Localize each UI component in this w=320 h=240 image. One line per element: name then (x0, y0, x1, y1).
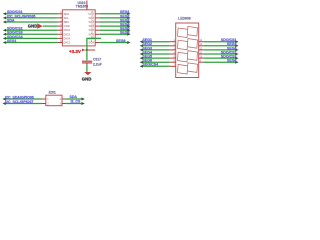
svg-text:GND: GND (64, 24, 70, 28)
svg-text:GND: GND (28, 23, 38, 28)
node arrow led right 2 (235, 44, 238, 47)
node arrow led left 1 (140, 40, 143, 43)
pin 3 stub (58, 21, 63, 23)
J201 stub right 1 (62, 98, 66, 100)
wire I2C_SCL/GPIO07 (4, 103, 42, 105)
svg-text:J201: J201 (48, 90, 56, 94)
node arrow right 1 (127, 12, 130, 15)
node arrow j right 1 (81, 98, 84, 101)
node arrow led left 6 (140, 61, 143, 64)
pin 5 stub (58, 29, 63, 31)
pin 4 stub (58, 25, 63, 27)
node arrow led left 2 (140, 44, 143, 47)
pin 9 stub (95, 42, 100, 44)
svg-text:2.2uF: 2.2uF (93, 62, 102, 66)
svg-text:3: 3 (59, 103, 61, 106)
wire net SEG3 (100, 21, 129, 23)
J201 stub right 2 (62, 103, 66, 105)
svg-text:SG6: SG6 (88, 32, 94, 36)
pin 14 stub (95, 21, 100, 23)
svg-text:SCL: SCL (64, 16, 70, 20)
svg-text:GND: GND (82, 76, 92, 81)
node arrow left 1 (3, 12, 6, 15)
svg-text:I2C_SCL/GPIO07: I2C_SCL/GPIO07 (5, 100, 33, 104)
svg-text:2: 2 (47, 103, 49, 106)
node arrow left 8 (3, 41, 6, 44)
wire I2C_S out (66, 103, 84, 105)
J201 stub left 2 (42, 103, 46, 105)
node arrow right 6 (127, 33, 130, 36)
digit 3 (178, 51, 198, 62)
svg-text:DIG1: DIG1 (64, 41, 71, 45)
wire net SEG2 (100, 17, 129, 19)
wire net SEG1 right (100, 13, 129, 15)
wire GND to pin4 (43, 25, 58, 27)
junction dot (86, 49, 88, 51)
node arrow right 8 (127, 41, 130, 44)
wire SEG6 to LED (141, 61, 170, 63)
wire SEG8 from LED (204, 61, 237, 63)
node arrow j left 2 (2, 102, 5, 105)
wire SEG2 to LED (141, 45, 170, 47)
ground arrow (37, 23, 43, 28)
wire SDO/CS1 from LED (204, 41, 237, 43)
node arrow left 5 (3, 29, 6, 32)
IC U310 body (62, 10, 95, 46)
svg-text:TM1650: TM1650 (76, 5, 88, 9)
svg-text:VCC: VCC (88, 12, 94, 16)
wire I2C_SDA/GPIO06 (4, 98, 42, 100)
wire net SEG1 left (5, 42, 58, 44)
wire net SDO/CS3 (5, 33, 58, 35)
wire net SDO/CS1 (5, 13, 58, 15)
wire SEG3 to LED (141, 49, 170, 51)
node arrow led right 6 (235, 61, 238, 64)
wire SDO/CS4 to LED (141, 65, 170, 67)
svg-text:SG2: SG2 (88, 16, 94, 20)
svg-text:SEG8: SEG8 (116, 39, 125, 43)
wire SDA out (66, 98, 84, 100)
pin 11 stub (95, 33, 100, 35)
svg-text:DIG3: DIG3 (64, 32, 71, 36)
wire to capacitor (86, 50, 88, 60)
svg-text:C317: C317 (93, 58, 101, 62)
+3.3V arrow (82, 49, 85, 52)
pin numbers left (60, 11, 62, 43)
svg-text:SG8: SG8 (88, 41, 94, 45)
node arrow left 7 (3, 37, 6, 40)
wire SEG5 to LED (141, 57, 170, 59)
node arrow right 2 (127, 16, 130, 19)
svg-text:SEG1: SEG1 (7, 39, 16, 43)
node arrow left 6 (3, 33, 6, 36)
LED display LED808 body (176, 23, 199, 78)
LED pin stubs left (170, 42, 176, 67)
svg-text:I2C_SDA/GPIO06: I2C_SDA/GPIO06 (5, 95, 34, 99)
LED pin stubs right (199, 42, 204, 63)
wire net SEG6 (100, 33, 129, 35)
pin names U310 (64, 12, 95, 45)
wire net SEG5 (100, 29, 129, 31)
wire SDO/CS2 from LED (204, 53, 237, 55)
svg-text:DIG4: DIG4 (64, 36, 71, 40)
LED pin numbers left (174, 39, 176, 67)
pin 1 stub (58, 13, 63, 15)
wire +3.3V to pin10 (87, 38, 101, 50)
wire SDO/CS3 from LED (204, 57, 237, 59)
node arrow led left 3 (140, 48, 143, 51)
svg-text:SG5: SG5 (88, 28, 94, 32)
wire SEG6 from LED (204, 49, 237, 51)
svg-text:DIG2: DIG2 (64, 28, 71, 32)
wire SEG4 to LED (141, 53, 170, 55)
pin 15 stub (95, 17, 100, 19)
svg-text:SEG8: SEG8 (227, 59, 236, 63)
svg-text:SG3: SG3 (88, 20, 94, 24)
node arrow led left 4 (140, 53, 143, 56)
ground symbol bottom (84, 72, 91, 75)
pin 10 stub (95, 37, 100, 39)
svg-text:SDO/CS4: SDO/CS4 (143, 63, 159, 67)
wire net SDO/CS2 (5, 29, 58, 31)
pin 12 stub (95, 29, 100, 31)
J201 pin numbers (47, 98, 61, 106)
wire +3.3V (85, 49, 95, 51)
wire VCC top (86, 1, 88, 10)
digit 2 (178, 39, 198, 50)
svg-text:4: 4 (59, 98, 61, 101)
J201 stub left 1 (42, 98, 46, 100)
node arrow led right 4 (235, 53, 238, 56)
pin 16 stub (95, 13, 100, 15)
pin 13 stub (95, 25, 100, 27)
LED pin numbers right (200, 39, 203, 63)
node arrow led right 3 (235, 48, 238, 51)
wire SEG4 from LED (204, 45, 237, 47)
svg-text:SB0: SB0 (64, 20, 70, 24)
digit 1 (178, 26, 198, 37)
wire capacitor to ground (86, 65, 88, 72)
wire net SEG8 (100, 42, 129, 44)
svg-text:+3.3V: +3.3V (69, 49, 81, 54)
svg-text:SEG6: SEG6 (120, 31, 129, 35)
node arrow right 4 (127, 25, 130, 28)
svg-text:1: 1 (47, 98, 49, 101)
pin 2 stub (58, 17, 63, 19)
pin 8 stub (58, 42, 63, 44)
wire net I2C_SCL/GPIO05 (5, 17, 58, 19)
node arrow left 2 (3, 16, 6, 19)
pin numbers right (91, 11, 94, 43)
node arrow led left 7 (140, 65, 143, 68)
node arrow right 5 (127, 29, 130, 32)
node arrow j left 1 (2, 98, 5, 101)
wire net SEG4 (100, 25, 129, 27)
svg-text:SDA: SDA (7, 18, 15, 22)
connector J201 body (46, 95, 62, 106)
pin 7 stub (58, 37, 63, 39)
node arrow led right 1 (235, 40, 238, 43)
digit 4 (178, 63, 198, 74)
pin 6 stub (58, 33, 63, 35)
node arrow j right 2 (81, 102, 84, 105)
wire net SDA (5, 21, 58, 23)
capacitor C317 (82, 61, 92, 64)
svg-text:SDA: SDA (64, 12, 70, 16)
svg-text:LED808: LED808 (178, 16, 190, 20)
node arrow led left 5 (140, 57, 143, 60)
wire SEG1 to LED (141, 41, 170, 43)
node arrow left 3 (3, 21, 6, 24)
svg-text:SG4: SG4 (88, 24, 94, 28)
svg-text:I2_CS: I2_CS (71, 99, 81, 103)
wire net SDO/CS4 (5, 37, 58, 39)
node arrow right 3 (127, 21, 130, 24)
node arrow led right 5 (235, 57, 238, 60)
